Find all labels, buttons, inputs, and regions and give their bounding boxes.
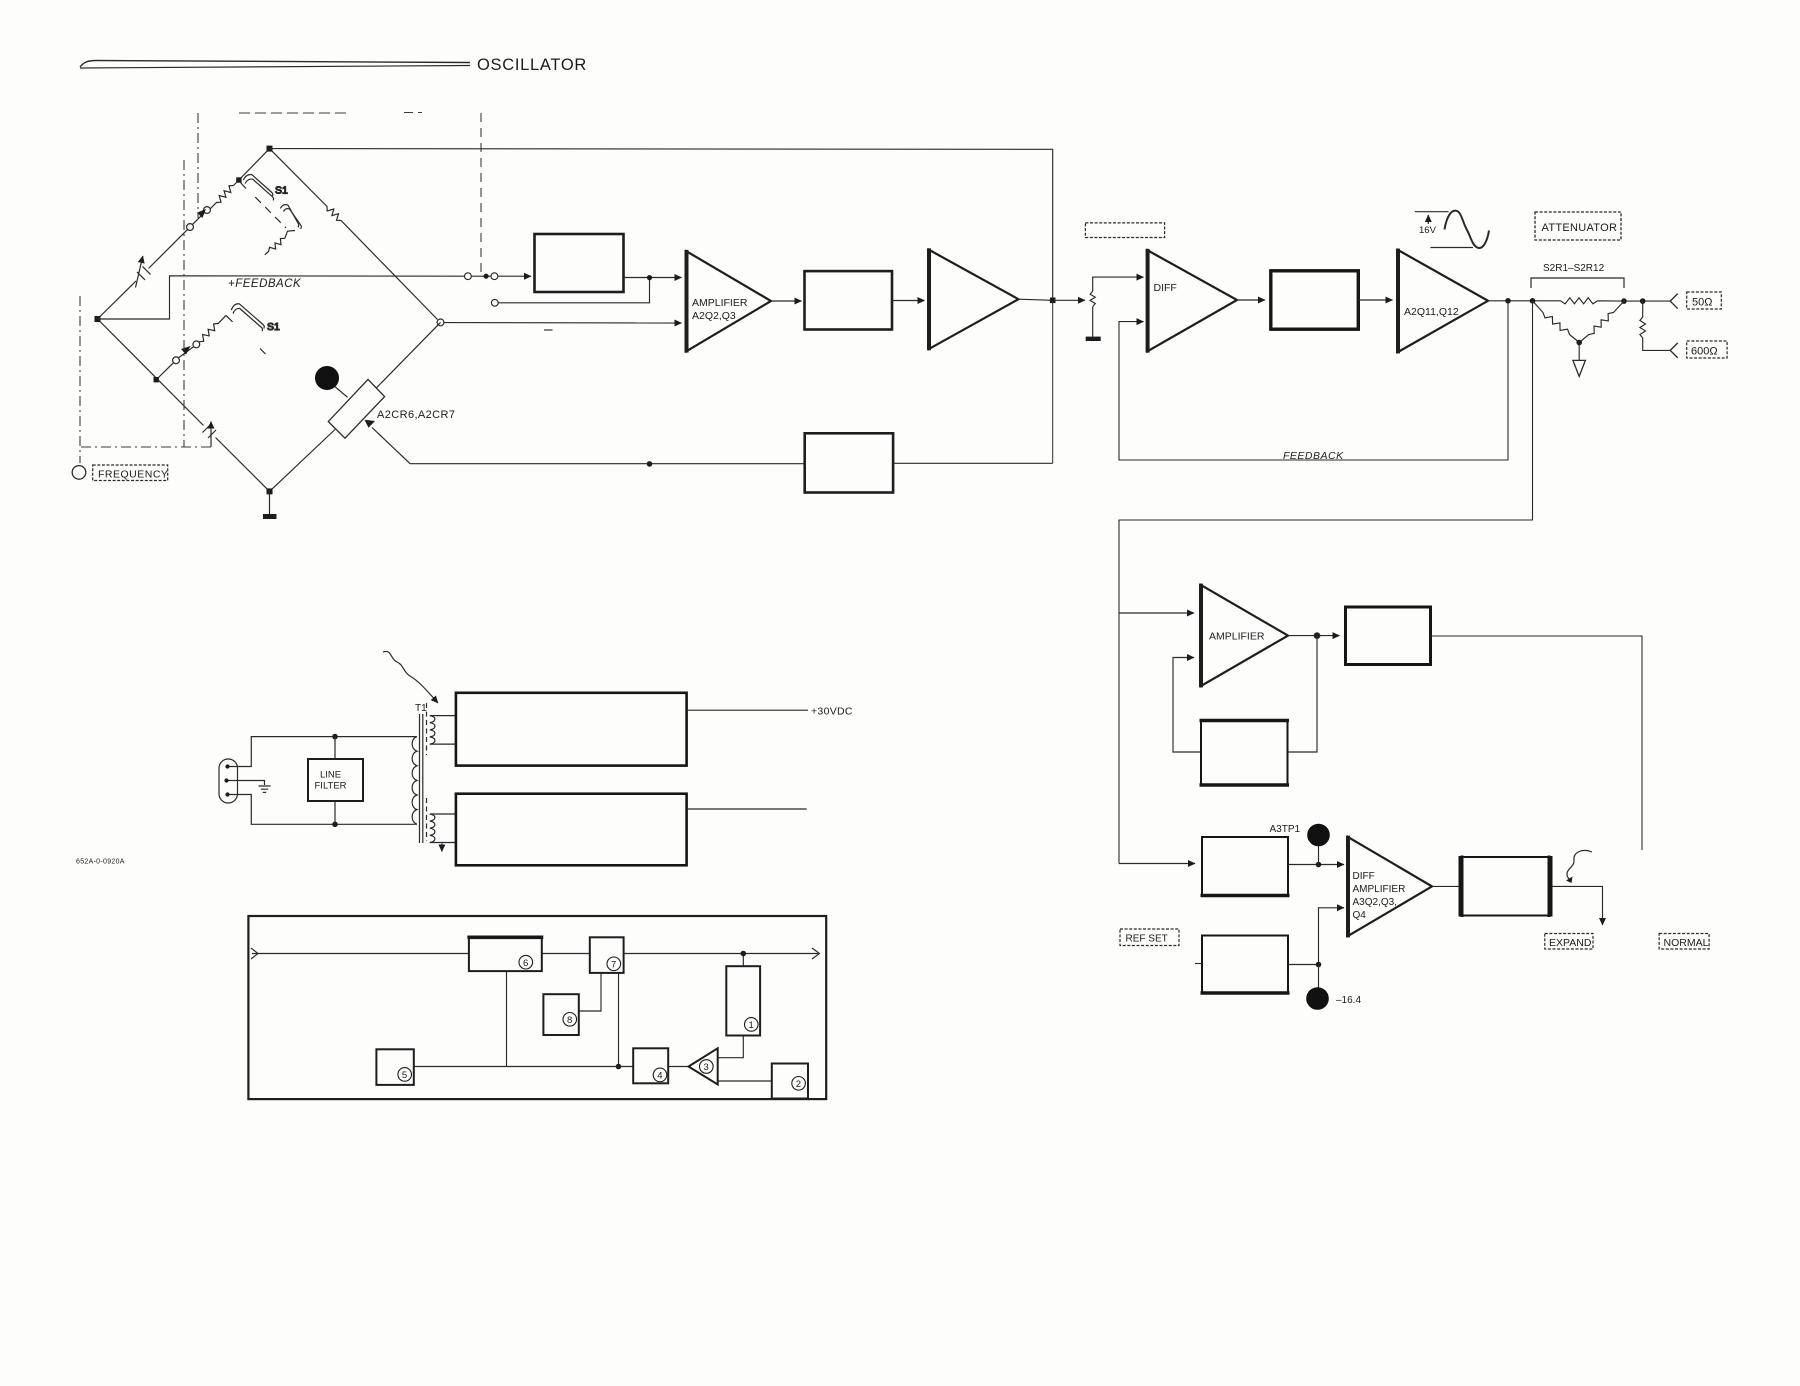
wiper stub S1 lower bbox=[226, 315, 233, 321]
wire top rail from bridge top vertex bbox=[270, 149, 1053, 301]
wire segment to bottom vertex bbox=[216, 438, 270, 492]
block A2 input network (box) bbox=[535, 234, 624, 292]
node right vertex (open circle) bbox=[437, 319, 444, 326]
ground at bottom vertex bbox=[269, 491, 271, 514]
center-tap arrow below lower secondary bbox=[441, 844, 443, 852]
wire segment between contacts bbox=[192, 212, 204, 224]
svg-text:Q4: Q4 bbox=[1353, 910, 1367, 921]
svg-text:1: 1 bbox=[749, 1020, 754, 1031]
triangle 3 (buffer, points left) bbox=[689, 1048, 718, 1084]
voltage selector squiggle arrow bbox=[383, 651, 438, 703]
node dot attenuator shunt junction bbox=[1576, 340, 1582, 346]
wire interstage to output amplifier bbox=[892, 300, 925, 302]
tick mark under input wire bbox=[544, 329, 553, 331]
dashed boundary top horizontal bbox=[239, 112, 346, 114]
transformer T1 secondary lower bbox=[430, 814, 435, 842]
wire meter box output to EXPAND contact bbox=[1552, 886, 1603, 925]
svg-text:–16.4: –16.4 bbox=[1336, 995, 1361, 1006]
arrowhead right of signal line bbox=[812, 948, 820, 959]
wire reference divider to DIFF AMPLIFIER lower input bbox=[1288, 908, 1344, 965]
lamp A2DS1 (bridge amplitude lamp) bbox=[316, 367, 339, 390]
switch contact circle (lower, outer) bbox=[193, 341, 200, 348]
node contact circle feedback a bbox=[465, 273, 472, 280]
wire secondary lower to rectifier box bbox=[430, 814, 456, 843]
wire between feedback contacts bbox=[471, 275, 491, 277]
wire pot bottom to ground bbox=[1092, 307, 1094, 337]
wire block 6 down leg bbox=[506, 971, 508, 1066]
svg-text:4: 4 bbox=[657, 1071, 662, 1082]
wire bridge right vertex to amplifier inverting input bbox=[444, 322, 682, 324]
block interstage (box) bbox=[805, 271, 893, 329]
wire plug hot to transformer primary top bbox=[230, 737, 414, 767]
node junction dot bottom line bbox=[616, 1064, 622, 1070]
block 1 (tall) bbox=[726, 966, 760, 1035]
linkage dash-dot vertical at x=198 bbox=[197, 113, 199, 218]
thermistor block A2CR6,A2CR7 (rotated) bbox=[328, 379, 384, 438]
wire plug neutral to transformer primary bottom bbox=[230, 795, 414, 825]
wire pot top to DIFF + input bbox=[1093, 277, 1144, 291]
svg-text:S1: S1 bbox=[267, 321, 280, 333]
svg-text:DIFF: DIFF bbox=[1353, 871, 1375, 882]
SECTION: AGC / meter reference section bbox=[1119, 612, 1194, 614]
svg-text:A2Q2,Q3: A2Q2,Q3 bbox=[692, 310, 736, 322]
switch S1 mechanical linkage (dashed) bbox=[255, 197, 286, 228]
label 600 ohm bbox=[1687, 341, 1727, 358]
node bottom vertex bbox=[267, 488, 273, 494]
svg-text:652A-0-0920A: 652A-0-0920A bbox=[76, 859, 125, 866]
op-amp AGC AMPLIFIER bbox=[1201, 584, 1288, 688]
node S1 branch junction (upper) bbox=[236, 177, 241, 182]
node junction dot line filter top bbox=[332, 734, 338, 740]
ground symbol (safety) bbox=[259, 786, 271, 792]
wire output stage to level pot bbox=[1018, 299, 1052, 300]
wire into AGC amplifier top input bbox=[1119, 612, 1194, 614]
wire FEEDBACK path to DIFF inverting input bbox=[1119, 301, 1508, 460]
block 7 bbox=[590, 937, 624, 973]
block rectifier/regulator +30V (box) bbox=[456, 693, 687, 766]
node junction dot output net bbox=[647, 275, 652, 280]
svg-text:50Ω: 50Ω bbox=[1692, 297, 1712, 309]
linkage dashed vertical at x=184 bbox=[183, 160, 185, 447]
SECTION: mechanical linkage dashes bbox=[80, 113, 481, 464]
resistor attenuator shunt right (diagonal) bbox=[1579, 301, 1624, 342]
resistor S2 series (horizontal) bbox=[1558, 298, 1624, 304]
node junction dot at -16.4 test point bbox=[1316, 962, 1322, 968]
switch contact circle (upper, inner) bbox=[187, 224, 194, 231]
svg-text:A2CR6,A2CR7: A2CR6,A2CR7 bbox=[377, 409, 455, 421]
SECTION: oscillator forward chain bbox=[98, 149, 1053, 319]
transformer T1 core bbox=[420, 714, 423, 843]
node junction dot on bottom rail bbox=[647, 461, 653, 467]
variable capacitor C2 arrow bbox=[210, 422, 212, 448]
wire junction down to bottom feedback rail bbox=[1052, 300, 1054, 463]
wire lower supply output bbox=[687, 808, 807, 810]
wire line filter taps bbox=[334, 737, 336, 825]
waveform annotation 16V sine bbox=[1415, 211, 1489, 248]
node tap contact circle bbox=[491, 299, 498, 306]
connector jack 50 ohm bbox=[1670, 294, 1678, 309]
empty reference label box (dashed) bbox=[1085, 223, 1164, 238]
panel frame bbox=[248, 916, 826, 1099]
node contact circle feedback b bbox=[491, 273, 498, 280]
connector jack 600 ohm bbox=[1670, 343, 1678, 358]
wire amplifier to interstage box bbox=[771, 300, 802, 302]
svg-text:DIFF: DIFF bbox=[1154, 282, 1177, 294]
ATTENUATOR label box bbox=[1535, 212, 1621, 240]
wire signal path arrow line bbox=[252, 953, 818, 955]
svg-text:S2R1–S2R12: S2R1–S2R12 bbox=[1543, 263, 1605, 274]
svg-text:3: 3 bbox=[704, 1062, 709, 1073]
wire AGC box output to amplifier bbox=[624, 277, 682, 279]
wire tap to amplifier input net bbox=[498, 278, 649, 303]
node dot feedback takeoff b bbox=[1530, 298, 1536, 304]
wire bridge edge bottom-right upper segment bbox=[376, 322, 440, 388]
svg-text:7: 7 bbox=[611, 959, 616, 970]
svg-text:FILTER: FILTER bbox=[315, 781, 347, 792]
linkage dash-dot vertical to FREQUENCY knob bbox=[79, 296, 81, 463]
arrowhead left of signal line bbox=[251, 948, 258, 959]
block 6 bbox=[469, 937, 542, 971]
wire to 50 ohm jack bbox=[1624, 300, 1670, 302]
label 50 ohm bbox=[1687, 292, 1722, 309]
block AGC detector (box) bbox=[1346, 607, 1431, 665]
wire plug safety ground bbox=[229, 781, 265, 786]
EXPAND label box bbox=[1545, 934, 1593, 950]
wire segment to left vertex bbox=[98, 281, 137, 319]
REF SET label box bbox=[1120, 929, 1179, 946]
dashed boundary vertical at x=481 bbox=[480, 113, 482, 275]
node junction dot on AGC output bbox=[1314, 633, 1320, 639]
node S1 branch junction (lower) bbox=[154, 377, 159, 382]
svg-text:AMPLIFIER: AMPLIFIER bbox=[1353, 884, 1406, 895]
wire block 7 down leg bbox=[618, 973, 620, 1067]
connector AC line plug bbox=[219, 759, 238, 803]
potentiometer (level) vertical resistor bbox=[1090, 291, 1095, 307]
op-amp A2Q11,Q12 bbox=[1398, 249, 1488, 354]
wire bridge edge top-right with resistor bbox=[270, 149, 438, 320]
wire block2 to triangle3 bbox=[718, 1080, 772, 1082]
node dot feedback takeoff a bbox=[1505, 298, 1511, 304]
wiper arrowhead on top-left edge bbox=[197, 209, 206, 218]
wire bridge edge top-left upper segment bbox=[234, 149, 270, 186]
wire box to DIFF AMPLIFIER upper input bbox=[1288, 864, 1344, 866]
bracket over attenuator bbox=[1531, 278, 1624, 288]
wire feedback box to x=1053 riser bbox=[893, 462, 1053, 464]
wire block 7 to block 8 bbox=[579, 973, 601, 1011]
svg-text:NORMAL: NORMAL bbox=[1664, 937, 1709, 949]
node junction at x=1053 bbox=[1050, 298, 1056, 304]
switch S1 upper second wafer arcs bbox=[280, 205, 298, 228]
svg-text:16V: 16V bbox=[1419, 225, 1437, 236]
svg-text:LINE: LINE bbox=[320, 770, 341, 781]
wire bottom feedback rail bbox=[410, 463, 805, 465]
SECTION: power supply bbox=[219, 734, 413, 827]
block 4 bbox=[633, 1048, 668, 1083]
block 5 bbox=[376, 1049, 413, 1085]
wire driver to output amp A2Q11,Q12 bbox=[1358, 299, 1392, 301]
variable capacitor C2 plates bbox=[203, 425, 217, 439]
wire block1 bottom to triangle3 bbox=[718, 1036, 744, 1058]
wire bridge edge bottom-left lower-vertex side bbox=[98, 319, 204, 426]
wire AGC feedback loop right leg bbox=[1288, 636, 1318, 752]
wiper arrowhead on lower branch bbox=[181, 346, 191, 355]
transformer T1 bbox=[383, 651, 456, 851]
op-amp AMPLIFIER A2Q2,Q3 bbox=[687, 250, 772, 353]
wire DIFF AMPLIFIER output to meter box bbox=[1432, 885, 1460, 887]
test point -16.4 bbox=[1318, 965, 1320, 989]
wire AGC sense line to lower section bbox=[1119, 301, 1533, 864]
resistor 600 ohm build-out (vertical) bbox=[1640, 301, 1670, 350]
switch wiper squiggle (meter function) bbox=[1567, 850, 1592, 879]
wire pot wiper feed bbox=[1053, 299, 1085, 301]
wiper stub at S1 upper junction bbox=[241, 183, 247, 189]
variable capacitor C1 arrow bbox=[136, 256, 143, 288]
node dot 600 ohm branch bbox=[1640, 298, 1646, 304]
node left vertex bbox=[95, 316, 101, 322]
switch S1 lower linkage dash bbox=[260, 349, 266, 355]
svg-text:8: 8 bbox=[567, 1015, 572, 1026]
op-amp DIFF AMPLIFIER A3Q2,Q3,Q4 bbox=[1348, 836, 1432, 938]
svg-text:EXPAND: EXPAND bbox=[1549, 937, 1592, 949]
NORMAL label box bbox=[1659, 934, 1709, 950]
wire A2Q11 output rail bbox=[1488, 300, 1558, 302]
svg-text:REF SET: REF SET bbox=[1126, 934, 1168, 945]
svg-text:OSCILLATOR: OSCILLATOR bbox=[477, 56, 587, 74]
wire secondary upper to rectifier box bbox=[430, 716, 456, 745]
transformer T1 secondary upper bbox=[430, 716, 435, 744]
svg-text:S1: S1 bbox=[275, 185, 288, 197]
wire AGC feedback loop left leg bbox=[1173, 658, 1201, 753]
transformer T1 primary winding bbox=[412, 737, 417, 825]
svg-text:5: 5 bbox=[402, 1070, 407, 1081]
resistor on S1 upper branch bbox=[265, 231, 295, 255]
wire bottom line block5 to block4 bbox=[414, 1066, 633, 1068]
svg-text:2: 2 bbox=[796, 1079, 801, 1090]
wire lamp to thermistor block bbox=[335, 387, 348, 398]
node top vertex bbox=[267, 146, 273, 152]
resistor on S1 lower branch bbox=[199, 315, 226, 341]
block 2 bbox=[772, 1064, 808, 1099]
svg-text:+30VDC: +30VDC bbox=[811, 706, 853, 718]
wire between lower contacts bbox=[178, 347, 193, 358]
block bridge feedback network (box) bbox=[805, 433, 893, 492]
wire bridge edge bottom-right lower segment bbox=[270, 430, 336, 492]
block reference divider (box) bbox=[1202, 936, 1288, 994]
wire into reference comparator box bbox=[1119, 863, 1195, 865]
wire S1 lower branch with contacts bbox=[159, 363, 174, 378]
linkage dashed horizontal to FREQUENCY bbox=[81, 446, 211, 448]
svg-text:A2Q11,Q12: A2Q11,Q12 bbox=[1404, 306, 1459, 318]
title rule line bbox=[80, 61, 470, 68]
svg-text:AMPLIFIER: AMPLIFIER bbox=[692, 297, 748, 309]
wire AGC detector output to meter switch bbox=[1431, 636, 1643, 850]
svg-text:600Ω: 600Ω bbox=[1691, 346, 1718, 358]
wire +30VDC output bbox=[687, 709, 808, 711]
svg-text:AMPLIFIER: AMPLIFIER bbox=[1209, 631, 1265, 643]
transformer T1 shield (dashed) bbox=[426, 703, 428, 755]
block LINE FILTER bbox=[308, 759, 363, 801]
node junction dot on signal line bbox=[741, 951, 747, 957]
variable capacitor C1 plates bbox=[137, 266, 151, 280]
op-amp DIFF bbox=[1148, 249, 1237, 353]
arrow pointing to A2CR6,A2CR7 bbox=[372, 428, 410, 464]
switch S1 lower wafer arcs bbox=[159, 304, 281, 378]
block 8 bbox=[543, 994, 578, 1035]
node junction dot line filter bottom bbox=[332, 822, 338, 828]
block rectifier/regulator lower (box) bbox=[456, 794, 687, 866]
block driver (bold box) bbox=[1271, 271, 1359, 329]
ground bar below pot bbox=[1086, 337, 1101, 341]
node dot attenuator right bbox=[1621, 298, 1627, 304]
block AGC feedback network (box) bbox=[1201, 721, 1288, 786]
switch contact circle (lower, inner) bbox=[173, 357, 180, 364]
svg-text:T1: T1 bbox=[415, 703, 427, 714]
block meter circuit (box) bbox=[1460, 857, 1552, 916]
FREQUENCY knob circle bbox=[72, 466, 86, 480]
wire triangle3 to block4 bbox=[668, 1066, 688, 1068]
test point A3TP1 bbox=[1318, 846, 1320, 865]
resistor bridge arm R (top-left edge) bbox=[209, 186, 233, 210]
wire block1 top leg bbox=[742, 954, 744, 967]
switch contact circle (upper, outer) bbox=[204, 207, 211, 214]
wire segment to variable capacitor C1 bbox=[149, 229, 188, 268]
wire stub into reference divider bbox=[1195, 963, 1202, 965]
resistor attenuator shunt left (diagonal) bbox=[1533, 301, 1580, 343]
svg-text:FEEDBACK: FEEDBACK bbox=[1283, 450, 1344, 462]
FREQUENCY label box bbox=[93, 465, 168, 481]
svg-text:A3TP1: A3TP1 bbox=[1270, 824, 1301, 835]
svg-text:ATTENUATOR: ATTENUATOR bbox=[1542, 222, 1618, 234]
svg-text:A3Q2,Q3,: A3Q2,Q3, bbox=[1353, 897, 1397, 908]
wire +feedback from left vertex bbox=[98, 276, 465, 319]
wire DIFF to driver box bbox=[1237, 299, 1265, 301]
junction dot on feedback wire bbox=[484, 274, 489, 279]
wire into AGC block with arrow bbox=[498, 275, 531, 277]
chassis ground arrow below attenuator bbox=[1578, 345, 1580, 360]
switch S1 upper wafer arcs bbox=[241, 175, 302, 255]
wire AGC amplifier output bbox=[1288, 635, 1340, 637]
svg-text:FREQUENCY: FREQUENCY bbox=[98, 469, 168, 481]
svg-text:+FEEDBACK: +FEEDBACK bbox=[228, 278, 302, 290]
node junction dot at A3TP1 bbox=[1316, 862, 1322, 868]
op-amp output stage (unlabeled triangle) bbox=[929, 248, 1018, 350]
svg-text:6: 6 bbox=[523, 958, 528, 969]
SECTION: Wien bridge bbox=[95, 146, 444, 519]
block meter drive (box) bbox=[1202, 837, 1288, 896]
